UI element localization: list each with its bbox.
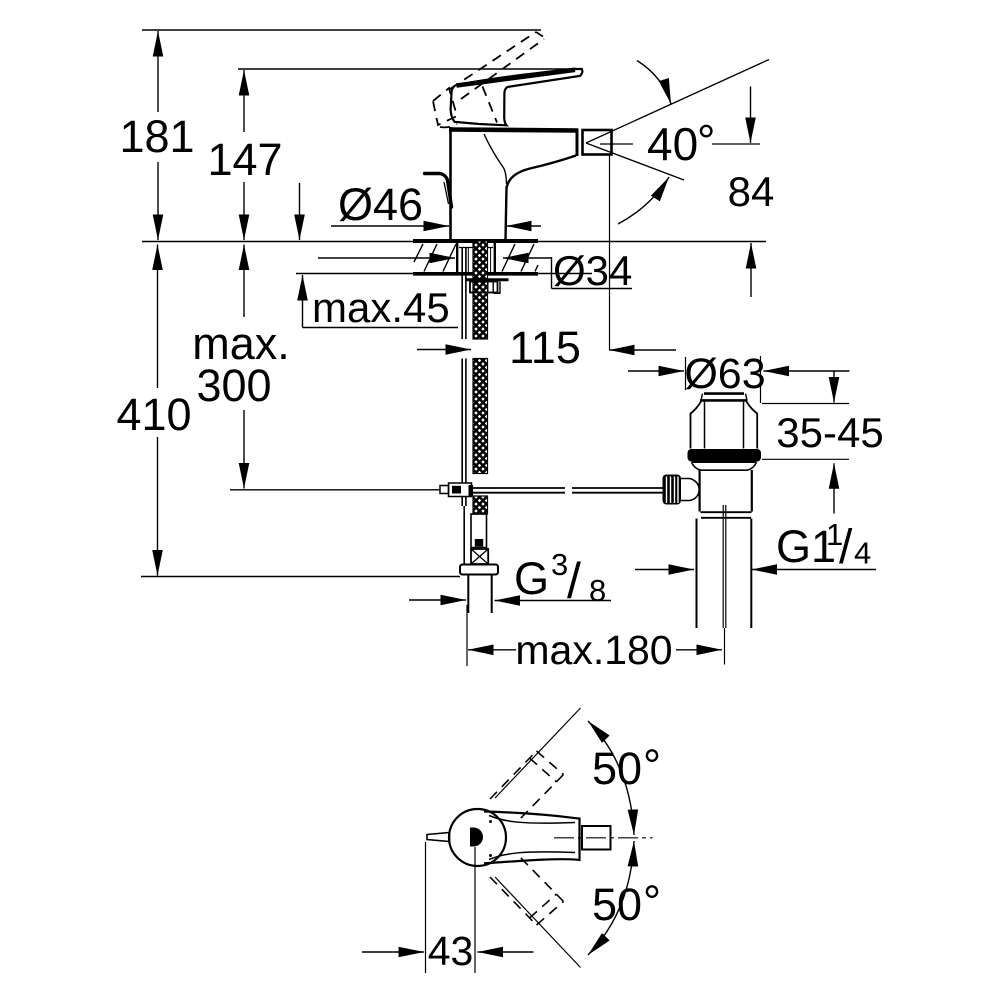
svg-text:G: G [514,553,549,604]
svg-text:147: 147 [207,134,282,185]
svg-text:410: 410 [116,389,191,440]
svg-text:181: 181 [119,111,194,162]
svg-text:3: 3 [551,547,568,582]
svg-text:Ø63: Ø63 [684,350,765,398]
svg-text:43: 43 [428,928,474,974]
svg-text:84: 84 [728,168,775,215]
svg-text:max.180: max.180 [515,627,672,673]
svg-text:115: 115 [509,322,581,373]
svg-text:/: / [839,521,853,574]
svg-text:°: ° [643,876,661,927]
svg-text:max.45: max.45 [312,284,450,331]
svg-text:/: / [567,553,581,609]
svg-text:Ø46: Ø46 [338,179,423,230]
svg-text:4: 4 [854,536,871,571]
svg-text:8: 8 [589,573,606,608]
svg-text:40: 40 [647,118,698,170]
svg-text:Ø34: Ø34 [553,247,632,294]
svg-text:50: 50 [592,743,642,794]
svg-text:50: 50 [592,879,642,930]
svg-text:°: ° [643,740,661,791]
svg-text:35-45: 35-45 [776,409,883,456]
svg-text:300: 300 [196,360,271,411]
svg-text:°: ° [697,115,715,167]
